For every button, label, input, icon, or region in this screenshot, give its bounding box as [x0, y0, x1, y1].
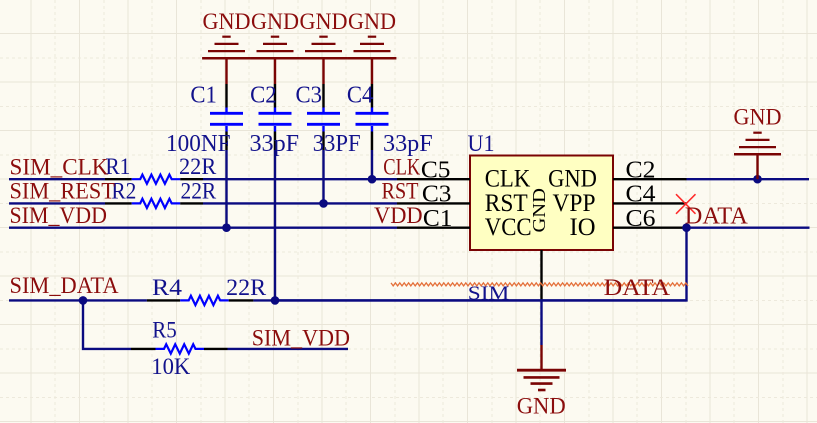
wire SIM_DATA branch down to R5	[83, 300, 131, 349]
node C4/CLK junction	[368, 175, 377, 184]
svg-text:C4: C4	[347, 82, 374, 109]
pin GND bottom vertical	[529, 188, 549, 300]
svg-text:C5: C5	[421, 157, 451, 183]
svg-text:C2: C2	[626, 157, 656, 183]
svg-text:SIM_DATA: SIM_DATA	[10, 273, 119, 299]
svg-text:33PF: 33PF	[313, 131, 361, 157]
wire SIM_REST left	[9, 202, 105, 204]
ground GND (top right)	[734, 105, 782, 180]
wire R1 to CLK pin	[203, 178, 397, 180]
svg-text:C2: C2	[250, 82, 277, 109]
svg-text:SIM_VDD: SIM_VDD	[10, 203, 107, 229]
svg-text:GND: GND	[734, 105, 782, 131]
svg-text:RST: RST	[485, 190, 528, 217]
svg-text:VDD: VDD	[374, 203, 423, 229]
svg-text:R2: R2	[111, 177, 136, 203]
wire SIM_DATA left	[9, 299, 147, 301]
capacitor C2	[250, 82, 300, 158]
wire C3 to RST row	[322, 150, 324, 203]
svg-text:C4: C4	[626, 182, 656, 208]
svg-text:CLK: CLK	[485, 166, 531, 193]
svg-text:GND: GND	[529, 188, 549, 232]
svg-text:DATA: DATA	[685, 202, 748, 229]
svg-text:VPP: VPP	[553, 190, 596, 217]
svg-text:SIM_CLK: SIM_CLK	[10, 154, 109, 180]
resistor R5	[131, 317, 228, 379]
wire SIM_CLK left	[9, 178, 105, 180]
capacitor C4	[347, 82, 433, 158]
svg-text:10K: 10K	[151, 353, 190, 379]
node IO/DATA junction	[682, 223, 691, 232]
svg-text:C3: C3	[422, 182, 452, 208]
IC U1 body	[468, 131, 614, 250]
pin VCC / designator C1	[397, 206, 532, 241]
svg-text:R4: R4	[152, 274, 183, 300]
svg-text:C1: C1	[423, 206, 453, 232]
svg-text:GND: GND	[348, 9, 396, 35]
ground GND (bottom)	[517, 345, 566, 390]
svg-text:GND: GND	[517, 394, 566, 419]
svg-text:SIM_REST: SIM_REST	[10, 179, 116, 205]
svg-text:VCC: VCC	[485, 214, 532, 241]
svg-text:DATA: DATA	[604, 275, 671, 300]
node C1/VDD junction	[222, 223, 231, 232]
ground GND (top, over C3)	[299, 9, 348, 84]
svg-text:22R: 22R	[179, 153, 217, 179]
svg-text:R1: R1	[105, 153, 130, 179]
wire C4 to CLK row	[371, 150, 373, 179]
svg-text:U1: U1	[468, 131, 495, 157]
resistor R2	[105, 177, 217, 208]
svg-text:GND: GND	[548, 166, 597, 193]
svg-text:CLK: CLK	[383, 154, 420, 180]
capacitor C3	[296, 82, 361, 158]
wire GND pin to right edge	[687, 178, 810, 180]
wire GND pin down	[540, 300, 542, 345]
pin RST / designator C3	[397, 182, 528, 217]
svg-text:GND: GND	[203, 9, 251, 35]
svg-text:IO: IO	[570, 214, 596, 241]
ground GND (top, over C1)	[202, 9, 251, 84]
pin IO / designator C6	[570, 206, 687, 241]
svg-text:C1: C1	[190, 82, 217, 109]
pin CLK / designator C5	[397, 157, 530, 192]
wire SIM_VDD	[9, 226, 397, 228]
ground GND (top, over C2)	[251, 9, 300, 84]
svg-text:C3: C3	[296, 82, 323, 109]
resistor R1	[105, 153, 217, 184]
wire IO to right edge	[687, 226, 810, 228]
node GND junction	[753, 175, 762, 184]
compile-mask squiggle	[391, 283, 688, 286]
svg-text:SIM_VDD: SIM_VDD	[252, 326, 350, 352]
svg-text:R5: R5	[152, 317, 177, 343]
wire R4 to IO column	[253, 299, 686, 301]
wire C1 to SIM_VDD row	[225, 150, 227, 228]
no-connect X marker	[676, 194, 696, 214]
node C2/data junction	[271, 296, 280, 305]
svg-text:RST: RST	[382, 179, 419, 205]
svg-text:C6: C6	[626, 206, 656, 232]
node C3/RST junction	[319, 199, 328, 208]
wire R2 to RST pin	[203, 202, 397, 204]
capacitor C1	[166, 82, 243, 158]
pin VPP / designator C4	[553, 182, 687, 217]
svg-text:GND: GND	[251, 9, 299, 35]
resistor R4	[147, 274, 267, 305]
wire C2 down to data row	[274, 150, 276, 300]
node SIM_DATA branch junction	[79, 296, 88, 305]
wire R5 to SIM_VDD stub	[228, 348, 349, 350]
svg-text:22R: 22R	[226, 274, 267, 300]
pin GND / designator C2	[548, 157, 686, 192]
ground GND (top, over C4)	[348, 9, 397, 84]
wire IO down to data row	[275, 228, 687, 301]
svg-text:GND: GND	[300, 9, 348, 35]
svg-text:33pF: 33pF	[383, 131, 433, 157]
svg-text:22R: 22R	[181, 177, 217, 203]
